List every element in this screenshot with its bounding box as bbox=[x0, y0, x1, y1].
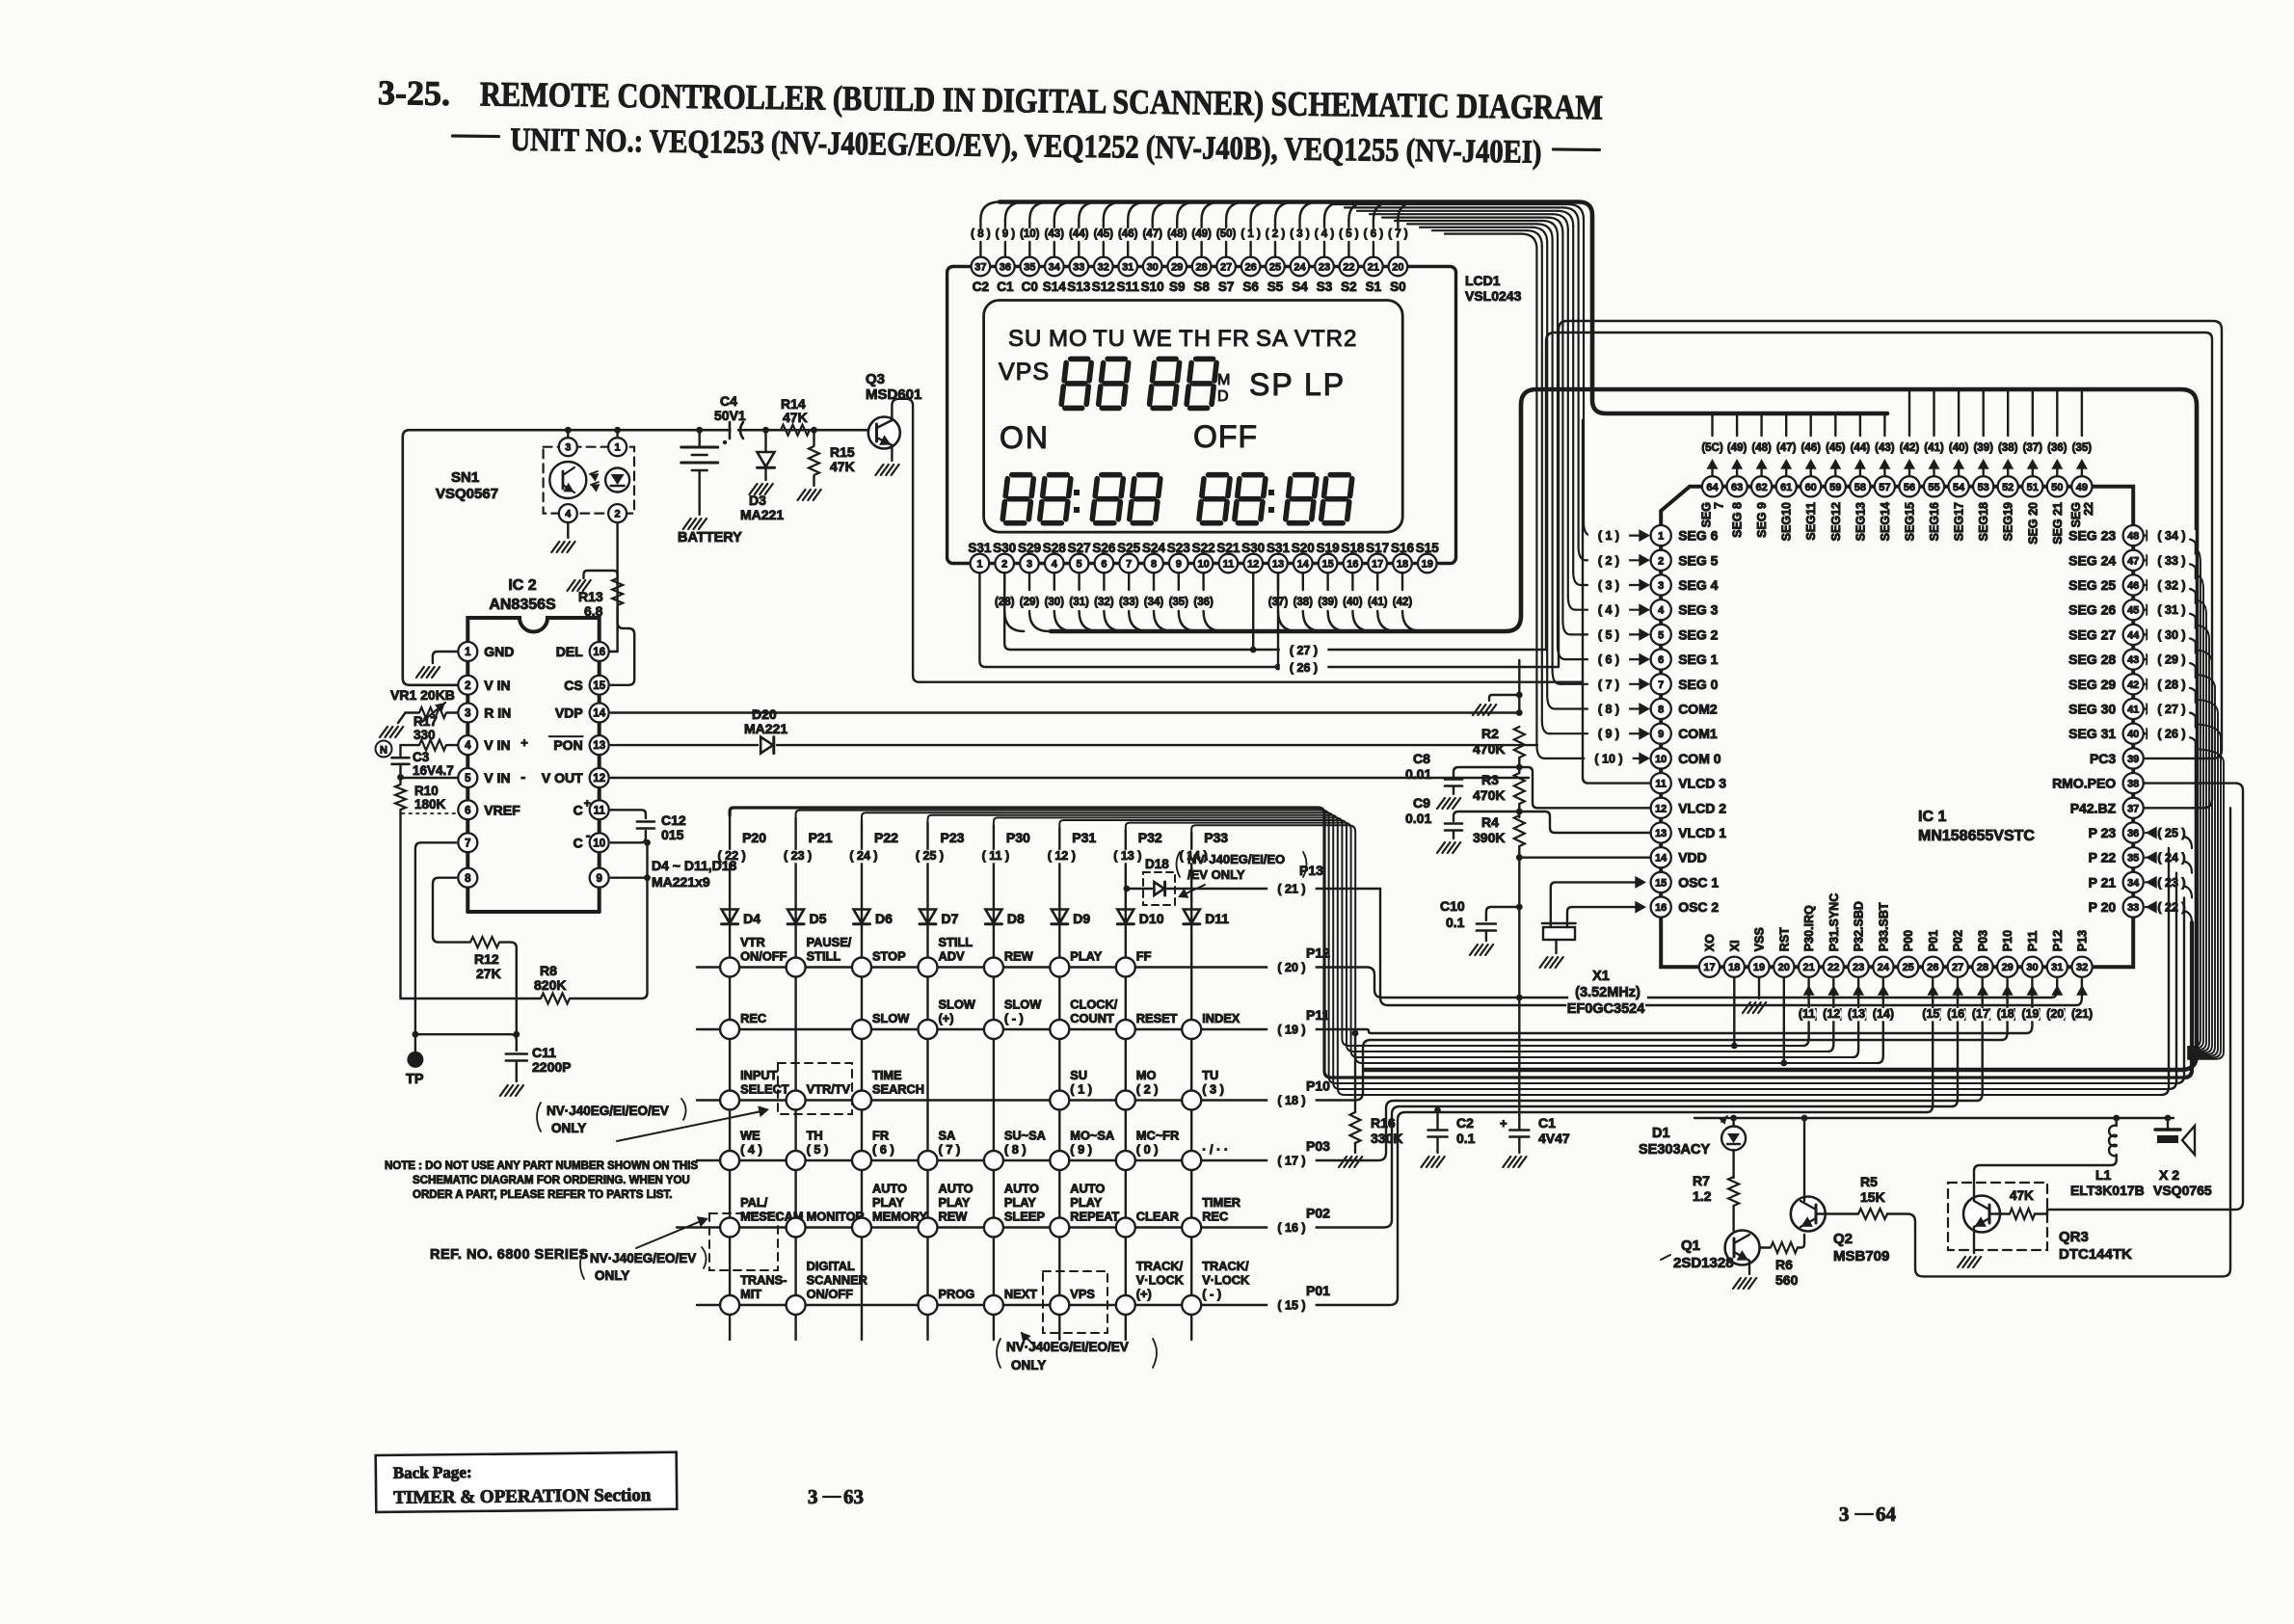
svg-text:17: 17 bbox=[1703, 962, 1715, 973]
IC1 right pin 44 (SEG27) bbox=[2123, 625, 2144, 645]
svg-text:WE: WE bbox=[740, 1129, 760, 1143]
svg-text:R2: R2 bbox=[1481, 726, 1499, 741]
IC1 top pin 63 (SEG8) net (49) bbox=[1736, 413, 1738, 436]
svg-text:SEG 0: SEG 0 bbox=[1678, 677, 1718, 692]
svg-text:SEG 23: SEG 23 bbox=[2068, 528, 2116, 544]
IC1 left pin 12 (VLCD2) bbox=[1651, 798, 1671, 818]
svg-text:R4: R4 bbox=[1481, 814, 1499, 830]
svg-text:REC: REC bbox=[740, 1011, 766, 1025]
wire: matrix column P22 net (24) bus bbox=[862, 812, 2169, 1089]
svg-text:S11: S11 bbox=[1117, 280, 1140, 294]
key switch AUTO PLAY SLEEP bbox=[984, 1218, 1003, 1238]
wire V IN- row bbox=[401, 777, 459, 779]
svg-text:63: 63 bbox=[1731, 482, 1743, 493]
wire RMO.PEO to QR3 bbox=[2047, 784, 2243, 1210]
svg-text:D18: D18 bbox=[1145, 857, 1169, 871]
svg-text:V IN: V IN bbox=[484, 737, 510, 753]
IC1 bottom pin 26 (P01) bbox=[1923, 957, 1943, 977]
svg-text:TRACK/: TRACK/ bbox=[1136, 1259, 1184, 1273]
svg-text:-: - bbox=[586, 827, 591, 842]
svg-text:31: 31 bbox=[1122, 262, 1134, 274]
key switch MONITOR bbox=[787, 1218, 806, 1238]
test point TP bbox=[407, 1052, 423, 1068]
key switch AUTO PLAY MEMORY bbox=[852, 1218, 871, 1238]
svg-text:P03: P03 bbox=[1977, 930, 1990, 951]
svg-text:10: 10 bbox=[1197, 559, 1209, 571]
svg-text:-: - bbox=[520, 769, 525, 785]
svg-text:P30.IRQ: P30.IRQ bbox=[1802, 905, 1816, 951]
svg-text:( 25 ): ( 25 ) bbox=[2157, 827, 2185, 840]
svg-text:OSC 2: OSC 2 bbox=[1678, 899, 1719, 915]
IC1 left pin 15 (OSC1) bbox=[1651, 872, 1671, 892]
svg-text:VSQ0765: VSQ0765 bbox=[2153, 1183, 2212, 1198]
svg-text:12: 12 bbox=[1655, 803, 1667, 814]
svg-text:28: 28 bbox=[1195, 262, 1207, 274]
net label (27) bbox=[1280, 645, 1328, 658]
IC2 pin 15 bbox=[590, 676, 609, 695]
svg-text:RMO.PEO: RMO.PEO bbox=[2052, 776, 2116, 791]
svg-text:FR: FR bbox=[1217, 326, 1250, 352]
svg-text:12: 12 bbox=[1247, 559, 1259, 571]
svg-text:47K: 47K bbox=[2010, 1188, 2034, 1203]
svg-text:TP: TP bbox=[406, 1072, 424, 1087]
svg-text:(49): (49) bbox=[1191, 228, 1212, 240]
svg-text:PAUSE/: PAUSE/ bbox=[807, 935, 852, 949]
LCD top pin 29 (S9, net (48)) bbox=[1176, 242, 1178, 256]
svg-text:V IN: V IN bbox=[484, 770, 510, 785]
svg-text:( 5 ): ( 5 ) bbox=[1598, 628, 1619, 642]
svg-text:1: 1 bbox=[465, 647, 471, 658]
svg-text:AUTO: AUTO bbox=[1004, 1182, 1039, 1196]
key switch MO~SA ( 9 ) bbox=[1050, 1151, 1069, 1170]
IC1 bottom pin 17 (XO) bbox=[1699, 957, 1720, 977]
svg-text:6: 6 bbox=[1101, 559, 1107, 571]
svg-text:TH: TH bbox=[807, 1129, 823, 1143]
svg-text:3: 3 bbox=[1027, 559, 1032, 571]
svg-text:1: 1 bbox=[615, 442, 621, 454]
svg-text:32: 32 bbox=[2076, 962, 2088, 973]
wire Q2 base to R5 bbox=[1816, 1212, 1858, 1214]
svg-text:( 3 ): ( 3 ) bbox=[1598, 579, 1619, 593]
svg-text:Q3: Q3 bbox=[866, 371, 885, 387]
svg-text:( 4 ): ( 4 ) bbox=[1598, 603, 1619, 617]
IC1 right pin 35 (P22) bbox=[2123, 847, 2144, 867]
svg-text:FF: FF bbox=[1136, 949, 1152, 964]
svg-text:(20): (20) bbox=[2046, 1007, 2067, 1021]
svg-text:PLAY: PLAY bbox=[1070, 1195, 1102, 1210]
LCD clock 7-seg digits month/day bbox=[1071, 357, 1088, 362]
svg-text:C1: C1 bbox=[1538, 1115, 1556, 1131]
svg-text:( 23 ): ( 23 ) bbox=[2157, 876, 2185, 890]
IC1 bottom pin 29 (P10) bbox=[1997, 957, 2017, 977]
svg-text:L1: L1 bbox=[2095, 1167, 2112, 1183]
svg-text:C2: C2 bbox=[973, 280, 989, 294]
svg-text:820K: 820K bbox=[534, 977, 566, 993]
svg-text:21: 21 bbox=[1802, 962, 1814, 973]
IC2 pin 3 bbox=[458, 704, 477, 723]
IC1 right pin 46 (SEG25) bbox=[2123, 574, 2144, 595]
IC1 left pin 5 (SEG2) bbox=[1651, 625, 1671, 645]
svg-text:S2: S2 bbox=[1341, 280, 1357, 294]
IC1 left pin 4 (SEG3) bbox=[1651, 599, 1671, 620]
key switch INPUT SELECT bbox=[720, 1091, 739, 1110]
IC1 bottom pin net labels and arrows bbox=[1803, 985, 1815, 996]
dashed box PAL/MESECAM option bbox=[709, 1213, 778, 1270]
svg-text:V·LOCK: V·LOCK bbox=[1202, 1273, 1250, 1288]
svg-text:47: 47 bbox=[2127, 555, 2139, 567]
svg-text:( 13 ): ( 13 ) bbox=[1113, 849, 1141, 863]
svg-text:19: 19 bbox=[1422, 559, 1433, 571]
wire: LCD top collector bus to IC1 top branch bus bbox=[1000, 202, 1887, 414]
svg-text:MIT: MIT bbox=[740, 1287, 761, 1301]
svg-text:51: 51 bbox=[2027, 482, 2039, 493]
svg-text:P11: P11 bbox=[1306, 1007, 1329, 1023]
LCD top pin 28 (S8, net (49)) bbox=[1200, 242, 1202, 256]
IC1 top pin 60 (SEG11) net (46) bbox=[1809, 413, 1811, 436]
svg-text:MN158655VSTC: MN158655VSTC bbox=[1918, 828, 2035, 844]
svg-text:REW: REW bbox=[939, 1210, 969, 1224]
IC1 left pin hooks and risers bbox=[1583, 220, 1585, 522]
wire QR3 collector to L1 bbox=[1974, 1155, 2117, 1201]
IC1 top pin 62 (SEG9) net (48) bbox=[1760, 413, 1762, 436]
svg-text:( 4 ): ( 4 ) bbox=[740, 1142, 762, 1157]
svg-text:48: 48 bbox=[2127, 531, 2139, 543]
svg-text:P22: P22 bbox=[874, 830, 898, 845]
svg-text:390K: 390K bbox=[1473, 830, 1505, 845]
svg-text:13: 13 bbox=[1272, 559, 1284, 571]
svg-text:ONLY: ONLY bbox=[595, 1268, 629, 1283]
svg-text:42: 42 bbox=[2127, 679, 2139, 691]
svg-text:2200P: 2200P bbox=[532, 1059, 571, 1075]
svg-text:18: 18 bbox=[1397, 559, 1408, 571]
svg-text:4V47: 4V47 bbox=[1538, 1131, 1570, 1146]
svg-text:3: 3 bbox=[565, 442, 571, 454]
LCD top pin 27 (S7, net (50)) bbox=[1225, 242, 1227, 256]
svg-text:(46): (46) bbox=[1801, 442, 1821, 454]
svg-text:SEG13: SEG13 bbox=[1854, 502, 1867, 541]
svg-text:( 30 ): ( 30 ) bbox=[2157, 628, 2185, 642]
wire VLCD3 riser bbox=[1583, 420, 1651, 784]
svg-text:R12: R12 bbox=[474, 951, 499, 967]
svg-text:330K: 330K bbox=[1371, 1131, 1402, 1146]
dashed box VPS option bbox=[1043, 1271, 1107, 1333]
svg-text:64: 64 bbox=[1706, 482, 1719, 493]
svg-text:(49): (49) bbox=[1727, 442, 1747, 454]
svg-text:SLOW: SLOW bbox=[872, 1011, 910, 1025]
wire: matrix row P10 net ( 18 ) bbox=[697, 1040, 2002, 1101]
IC1 top pin 56 (SEG15) net (42) bbox=[1908, 389, 1910, 436]
svg-text:20: 20 bbox=[1392, 262, 1403, 274]
svg-text:34: 34 bbox=[1049, 262, 1061, 274]
LCD top pin 34 (S14, net (43)) bbox=[1054, 242, 1055, 256]
key switch NEXT bbox=[984, 1295, 1003, 1315]
wire: matrix row P03 net ( 17 ) bbox=[697, 1101, 1977, 1160]
svg-text:P10: P10 bbox=[2001, 930, 2014, 951]
key switch STOP bbox=[852, 958, 871, 977]
svg-text:(44): (44) bbox=[1851, 442, 1871, 454]
svg-text:P31: P31 bbox=[1072, 830, 1096, 845]
svg-text:QR3: QR3 bbox=[2059, 1229, 2089, 1245]
key switch PLAY bbox=[1050, 958, 1069, 977]
svg-text:(18): (18) bbox=[1997, 1007, 2018, 1021]
svg-text:( 19 ): ( 19 ) bbox=[1277, 1024, 1305, 1037]
svg-text:(45): (45) bbox=[1094, 228, 1114, 240]
svg-text:6: 6 bbox=[1658, 654, 1664, 666]
svg-text:37: 37 bbox=[2127, 803, 2139, 814]
svg-text:2: 2 bbox=[465, 680, 470, 692]
svg-text:( 2 ): ( 2 ) bbox=[1136, 1082, 1159, 1097]
IC1 XI pin 18 stub bbox=[1733, 977, 1735, 1046]
svg-text:23: 23 bbox=[1319, 262, 1330, 274]
svg-text:NV·J40EG/EI/EO: NV·J40EG/EI/EO bbox=[1187, 852, 1285, 866]
svg-text:IC 2: IC 2 bbox=[508, 577, 536, 594]
wire VLCD1 to ladder bbox=[1519, 812, 1650, 833]
svg-text:GND: GND bbox=[484, 644, 514, 659]
svg-text:P21: P21 bbox=[809, 830, 833, 845]
IC1 top pin 49 (SEG 22) net (35) bbox=[2081, 389, 2083, 436]
svg-text:27K: 27K bbox=[476, 966, 501, 981]
IC2 pin 4 bbox=[458, 735, 477, 755]
svg-text:S5: S5 bbox=[1267, 280, 1284, 294]
svg-text:( 34 ): ( 34 ) bbox=[2157, 529, 2185, 543]
svg-text:(36): (36) bbox=[2047, 442, 2067, 454]
IC2 pin 9 bbox=[590, 868, 609, 888]
svg-text:8: 8 bbox=[1658, 705, 1664, 716]
IC1 left pin 10 (COM0) bbox=[1651, 748, 1671, 768]
svg-text:OFF: OFF bbox=[1193, 419, 1258, 454]
IC2 pin 8 bbox=[458, 868, 477, 888]
svg-text:2: 2 bbox=[615, 509, 621, 520]
svg-text:(46): (46) bbox=[1118, 228, 1138, 240]
svg-text:VPS: VPS bbox=[1070, 1287, 1095, 1301]
svg-text:(15): (15) bbox=[1922, 1007, 1943, 1021]
svg-text:14: 14 bbox=[1655, 853, 1667, 865]
svg-text:(48): (48) bbox=[1751, 442, 1772, 454]
svg-text:8: 8 bbox=[465, 873, 471, 885]
svg-text:ONLY: ONLY bbox=[551, 1121, 586, 1135]
IC1 SEG right bundle verticals bbox=[2188, 551, 2201, 1047]
svg-text:ADV: ADV bbox=[939, 949, 965, 964]
wire: matrix column P20 net (22) bus bbox=[730, 808, 2184, 1078]
svg-text:ON/OFF: ON/OFF bbox=[740, 949, 787, 964]
Q3 emitter ground bbox=[891, 445, 893, 461]
svg-text:SP LP: SP LP bbox=[1249, 367, 1346, 402]
key switch VTR ON/OFF bbox=[720, 958, 739, 977]
svg-text:SEG 3: SEG 3 bbox=[1678, 602, 1718, 618]
SN1 pin 1 bbox=[608, 438, 627, 456]
svg-text:62: 62 bbox=[1755, 482, 1767, 493]
svg-text:SA: SA bbox=[939, 1129, 956, 1143]
svg-text:PAL/: PAL/ bbox=[740, 1195, 768, 1210]
svg-text:VLCD 3: VLCD 3 bbox=[1678, 776, 1726, 791]
IC1 bottom pin 31 (P12) bbox=[2047, 957, 2067, 977]
wire R5 to P42.BZ bbox=[1887, 808, 2230, 1276]
IC1 top pin 55 (SEG16) net (41) bbox=[1933, 389, 1934, 436]
svg-text:2SD1328: 2SD1328 bbox=[1673, 1255, 1734, 1271]
wire: LCD pin12 tee to net 27 bbox=[1252, 572, 1254, 650]
net label (26) bbox=[1280, 662, 1328, 676]
svg-text:S7: S7 bbox=[1218, 280, 1235, 294]
IC1 left pin 3 (SEG4) bbox=[1651, 574, 1671, 595]
svg-text:S8: S8 bbox=[1193, 280, 1210, 294]
svg-text:· / · ·: · / · · bbox=[1202, 1142, 1228, 1157]
svg-text:MO: MO bbox=[1049, 326, 1088, 352]
svg-text:STILL: STILL bbox=[807, 949, 841, 964]
IC2 pin 12 bbox=[590, 768, 609, 787]
svg-text:AUTO: AUTO bbox=[872, 1182, 907, 1196]
wire to C11 bbox=[415, 1034, 517, 1051]
svg-text:33: 33 bbox=[2127, 902, 2139, 914]
svg-text:2: 2 bbox=[1658, 555, 1664, 567]
svg-text:DTC144TK: DTC144TK bbox=[2059, 1246, 2132, 1263]
svg-text:D1: D1 bbox=[1652, 1126, 1670, 1141]
diode D20 MA221 bbox=[611, 744, 758, 746]
svg-text:55: 55 bbox=[1928, 482, 1939, 493]
svg-text:36: 36 bbox=[1000, 262, 1011, 274]
svg-text:13: 13 bbox=[1655, 828, 1667, 839]
svg-text:S10: S10 bbox=[1141, 280, 1164, 294]
svg-text:14: 14 bbox=[593, 708, 605, 720]
IC1 top pin 58 (SEG13) net (44) bbox=[1859, 413, 1861, 436]
svg-text:( 1 ): ( 1 ) bbox=[1240, 228, 1261, 240]
svg-text:( 8 ): ( 8 ) bbox=[971, 228, 991, 240]
LCD top pin 31 (S11, net (46)) bbox=[1127, 242, 1129, 256]
svg-text:COM 0: COM 0 bbox=[1678, 751, 1721, 766]
svg-text:SEG 26: SEG 26 bbox=[2068, 602, 2116, 618]
svg-text:SEARCH: SEARCH bbox=[872, 1082, 924, 1097]
svg-text:C: C bbox=[573, 802, 583, 817]
svg-text:61: 61 bbox=[1780, 482, 1792, 493]
svg-text:NEXT: NEXT bbox=[1004, 1287, 1037, 1301]
svg-text:IC 1: IC 1 bbox=[1918, 809, 1946, 825]
svg-text:0.1: 0.1 bbox=[1446, 915, 1465, 930]
svg-text:(13): (13) bbox=[1848, 1007, 1869, 1021]
resistor R12 27K bbox=[470, 937, 499, 947]
capacitor C11 2200P bbox=[506, 1052, 527, 1055]
IC1 right pin 48 (SEG23) bbox=[2123, 525, 2144, 546]
svg-text:(33): (33) bbox=[1119, 597, 1139, 608]
wire: matrix row P01 net ( 15 ) bbox=[697, 1112, 1927, 1305]
IC1 top pin 50 (SEG21) net (36) bbox=[2056, 389, 2058, 436]
svg-text:( 24 ): ( 24 ) bbox=[2157, 851, 2185, 865]
svg-text:( 15 ): ( 15 ) bbox=[1277, 1299, 1305, 1313]
wire: Q3 collector bbox=[892, 399, 1583, 682]
LCD top pin 35 (C0, net (10)) bbox=[1028, 242, 1030, 256]
svg-text:D4 ~ D11,D18: D4 ~ D11,D18 bbox=[652, 858, 737, 873]
transistor Q1 2SD1328 bbox=[1725, 1231, 1760, 1265]
svg-text:SU: SU bbox=[1070, 1068, 1087, 1082]
capacitor C8 0.01 bbox=[1454, 767, 1519, 777]
svg-text:STILL: STILL bbox=[939, 935, 974, 949]
svg-text:25: 25 bbox=[1903, 962, 1914, 973]
svg-text:C: C bbox=[573, 835, 583, 850]
IC1 right pin 34 (P21) bbox=[2123, 872, 2144, 892]
svg-text:7: 7 bbox=[1713, 502, 1726, 509]
svg-text:(21): (21) bbox=[2071, 1007, 2093, 1021]
key switch MC~FR ( 0 ) bbox=[1116, 1151, 1135, 1170]
wire VREF row dotted bbox=[402, 812, 456, 814]
svg-text:SLOW: SLOW bbox=[939, 998, 976, 1012]
key switch REW bbox=[984, 958, 1003, 977]
LCD top pin 36 (C1, net ( 9 )) bbox=[1004, 242, 1006, 256]
junction C3 / V IN- bbox=[397, 774, 404, 781]
SN1 phototransistor bbox=[549, 462, 586, 498]
svg-text:( 1 ): ( 1 ) bbox=[1598, 529, 1619, 543]
IC2 pin 7 bbox=[458, 833, 477, 852]
svg-text:( 23 ): ( 23 ) bbox=[784, 849, 812, 863]
svg-text:60: 60 bbox=[1805, 482, 1817, 493]
key switch TIME SEARCH bbox=[852, 1091, 871, 1110]
svg-text:SEG 2: SEG 2 bbox=[1678, 626, 1718, 642]
key switch CLOCK/ COUNT bbox=[1050, 1020, 1069, 1039]
svg-text:470K: 470K bbox=[1473, 741, 1505, 757]
IC1 left pin 16 (OSC2) bbox=[1651, 897, 1671, 918]
key switch · / · · bbox=[1182, 1151, 1201, 1170]
svg-text:43: 43 bbox=[2127, 654, 2139, 666]
svg-text:D8: D8 bbox=[1007, 911, 1025, 926]
SN1 LED bbox=[605, 468, 629, 493]
svg-text:SEG 31: SEG 31 bbox=[2068, 726, 2116, 741]
svg-text:(12): (12) bbox=[1823, 1007, 1844, 1021]
svg-text:COM1: COM1 bbox=[1678, 726, 1718, 741]
key switch AUTO PLAY REW bbox=[919, 1218, 938, 1238]
wire: LCD pin13 tee to net 26 bbox=[1277, 572, 1279, 667]
svg-text:( 26 ): ( 26 ) bbox=[1290, 661, 1318, 675]
battery symbol bbox=[699, 430, 701, 447]
svg-text:SEG15: SEG15 bbox=[1904, 502, 1917, 541]
resistor R16 330K bbox=[1354, 1033, 1356, 1112]
IC1 body bbox=[1661, 487, 2133, 967]
svg-text:27: 27 bbox=[1220, 262, 1232, 274]
svg-text:64: 64 bbox=[1876, 1503, 1897, 1526]
key switch CLEAR bbox=[1116, 1218, 1135, 1238]
SN1 pin 2 bbox=[608, 504, 627, 522]
IC1 right pin 47 (SEG24) bbox=[2123, 550, 2144, 571]
junction R15 bbox=[811, 427, 817, 434]
svg-text:9: 9 bbox=[1658, 729, 1664, 740]
IC1 bottom pin 30 (P11) bbox=[2022, 957, 2042, 977]
svg-text:(42): (42) bbox=[1900, 442, 1920, 454]
svg-text:22: 22 bbox=[1827, 962, 1839, 973]
key switch SLOW (+) bbox=[919, 1020, 938, 1039]
svg-text:M: M bbox=[1217, 372, 1230, 388]
key switch WE ( 4 ) bbox=[720, 1151, 739, 1170]
svg-text:P20: P20 bbox=[742, 830, 766, 845]
svg-text:REC: REC bbox=[1202, 1210, 1228, 1224]
svg-text:15K: 15K bbox=[1860, 1189, 1885, 1205]
svg-text:P 22: P 22 bbox=[2089, 850, 2117, 865]
svg-text:16: 16 bbox=[1655, 902, 1667, 914]
svg-text:SEG16: SEG16 bbox=[1928, 502, 1941, 541]
svg-text:5: 5 bbox=[1077, 559, 1082, 571]
svg-text:SEG14: SEG14 bbox=[1879, 502, 1892, 541]
svg-text:( 10 ): ( 10 ) bbox=[1594, 752, 1622, 765]
IC2 pin1 ground bbox=[433, 652, 458, 663]
wire VDP long line bbox=[611, 711, 1520, 713]
svg-text:(45): (45) bbox=[1826, 442, 1846, 454]
IC1 bottom pin 22 (P31.SYNC) bbox=[1824, 957, 1844, 977]
svg-text:TIME: TIME bbox=[872, 1068, 902, 1082]
IC2 pin 14 bbox=[590, 704, 609, 723]
transistor Q2 MSB709 bbox=[1791, 1197, 1826, 1232]
light arrows bbox=[590, 473, 599, 481]
svg-text:PLAY: PLAY bbox=[939, 1195, 971, 1210]
svg-text:BATTERY: BATTERY bbox=[678, 530, 742, 546]
resistor 47K inside QR3 bbox=[1989, 1212, 2010, 1214]
svg-text:28: 28 bbox=[1977, 962, 1988, 973]
svg-text:CS: CS bbox=[564, 678, 582, 693]
svg-text:( 33 ): ( 33 ) bbox=[2157, 554, 2185, 568]
